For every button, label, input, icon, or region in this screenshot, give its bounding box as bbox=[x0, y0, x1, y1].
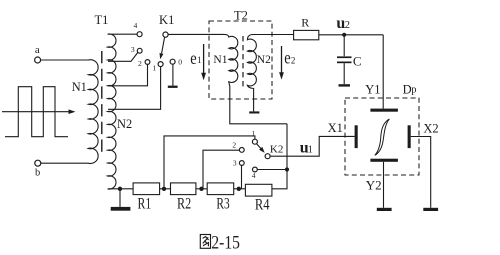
svg-text:N1: N1 bbox=[72, 80, 87, 94]
svg-text:T1: T1 bbox=[94, 13, 108, 27]
svg-text:2: 2 bbox=[345, 20, 350, 31]
svg-text:K1: K1 bbox=[159, 13, 174, 27]
svg-text:N1: N1 bbox=[213, 54, 227, 66]
svg-text:2: 2 bbox=[138, 59, 142, 68]
svg-text:N2: N2 bbox=[117, 117, 132, 131]
svg-text:1: 1 bbox=[252, 129, 256, 138]
svg-text:p: p bbox=[411, 85, 416, 96]
svg-text:R1: R1 bbox=[138, 195, 152, 212]
svg-text:2-15: 2-15 bbox=[211, 234, 240, 254]
svg-text:K2: K2 bbox=[270, 144, 283, 156]
svg-text:1: 1 bbox=[153, 64, 157, 73]
svg-text:R2: R2 bbox=[177, 195, 191, 212]
svg-text:Y2: Y2 bbox=[366, 177, 382, 192]
svg-text:4: 4 bbox=[134, 21, 138, 30]
svg-text:R4: R4 bbox=[255, 197, 270, 214]
svg-text:1: 1 bbox=[308, 145, 313, 156]
svg-text:N2: N2 bbox=[257, 54, 271, 66]
svg-text:C: C bbox=[353, 53, 362, 68]
svg-text:0: 0 bbox=[178, 58, 182, 67]
svg-text:e: e bbox=[190, 48, 196, 68]
svg-text:b: b bbox=[35, 167, 40, 178]
svg-text:R: R bbox=[301, 15, 309, 29]
svg-text:2: 2 bbox=[291, 55, 296, 65]
svg-text:X1: X1 bbox=[328, 121, 343, 135]
svg-text:3: 3 bbox=[131, 45, 135, 54]
svg-text:a: a bbox=[35, 44, 40, 56]
svg-text:R3: R3 bbox=[216, 195, 229, 212]
svg-text:4: 4 bbox=[252, 171, 256, 180]
svg-text:e: e bbox=[284, 47, 290, 67]
svg-text:1: 1 bbox=[197, 55, 202, 65]
svg-text:Y1: Y1 bbox=[365, 83, 380, 97]
svg-text:X2: X2 bbox=[423, 121, 438, 135]
svg-text:2: 2 bbox=[232, 141, 236, 150]
svg-text:3: 3 bbox=[233, 159, 237, 168]
svg-text:T2: T2 bbox=[234, 8, 248, 22]
